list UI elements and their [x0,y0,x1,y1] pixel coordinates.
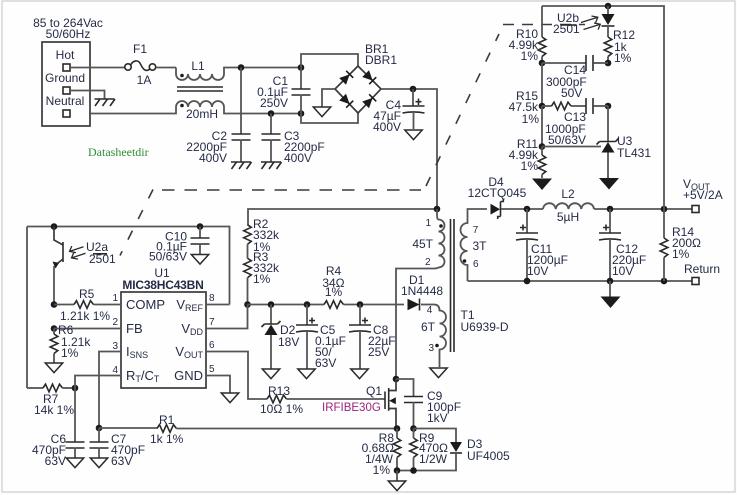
svg-text:GND: GND [174,368,203,383]
svg-text:1%: 1% [373,463,391,477]
svg-text:R5: R5 [79,287,95,301]
svg-text:1%: 1% [325,285,343,299]
svg-text:1kV: 1kV [427,411,448,425]
svg-text:10V: 10V [612,264,633,278]
svg-text:1%: 1% [61,346,79,360]
svg-text:2: 2 [112,317,118,328]
svg-text:50/63V: 50/63V [548,133,586,147]
svg-text:UF4005: UF4005 [467,449,510,463]
svg-text:8: 8 [209,293,215,304]
svg-text:Return: Return [684,262,720,276]
svg-text:R1: R1 [159,413,175,427]
svg-text:1%: 1% [522,112,540,126]
svg-text:1.21k 1%: 1.21k 1% [60,309,110,323]
svg-text:6T: 6T [421,320,436,334]
svg-text:3T: 3T [473,239,488,253]
svg-text:TL431: TL431 [617,146,651,160]
svg-text:1%: 1% [614,51,632,65]
svg-text:45T: 45T [412,237,433,251]
svg-text:25V: 25V [368,345,389,359]
svg-text:U6939-D: U6939-D [461,320,509,334]
svg-text:1N4448: 1N4448 [401,284,443,298]
svg-text:Ground: Ground [45,71,85,85]
svg-text:12CTQ045: 12CTQ045 [468,186,527,200]
svg-text:400V: 400V [199,151,227,165]
svg-text:+5V/2A: +5V/2A [683,188,723,202]
svg-text:10V: 10V [527,264,548,278]
svg-text:250V: 250V [260,96,288,110]
svg-text:1/2W: 1/2W [419,452,448,466]
svg-text:Hot: Hot [56,48,75,62]
svg-text:50V: 50V [561,86,582,100]
svg-text:2: 2 [425,257,431,268]
svg-text:1%: 1% [672,247,690,261]
svg-text:20mH: 20mH [186,107,218,121]
svg-text:1A: 1A [137,73,152,87]
svg-text:MIC38HC43BN: MIC38HC43BN [122,278,203,292]
svg-text:1%: 1% [253,272,271,286]
svg-text:400V: 400V [373,120,401,134]
svg-text:3: 3 [112,341,118,352]
svg-text:R13: R13 [268,384,290,398]
svg-text:63V: 63V [111,454,132,468]
svg-text:1: 1 [112,293,118,304]
svg-text:6: 6 [473,259,479,270]
svg-text:F1: F1 [133,42,147,56]
svg-text:1%: 1% [521,49,539,63]
svg-text:4: 4 [112,365,118,376]
svg-text:1: 1 [425,218,431,229]
svg-text:10Ω 1%: 10Ω 1% [260,402,303,416]
svg-text:COMP: COMP [126,297,165,312]
svg-text:14k 1%: 14k 1% [34,403,74,417]
svg-text:18V: 18V [278,335,299,349]
svg-text:DBR1: DBR1 [365,53,397,67]
svg-text:400V: 400V [284,151,312,165]
svg-text:L2: L2 [561,187,575,201]
svg-text:FB: FB [126,321,143,336]
svg-text:IRFIBE30G: IRFIBE30G [322,402,381,414]
svg-text:Datasheetdir: Datasheetdir [88,145,149,159]
svg-text:1k 1%: 1k 1% [150,432,184,446]
svg-text:63V: 63V [315,356,336,370]
svg-text:63V: 63V [45,454,66,468]
svg-text:1%: 1% [521,159,539,173]
svg-text:Q1: Q1 [366,384,382,398]
svg-text:5µH: 5µH [557,210,579,224]
svg-text:5: 5 [209,364,215,375]
svg-text:3: 3 [428,343,434,354]
svg-text:Neutral: Neutral [46,94,85,108]
svg-text:4: 4 [427,305,433,316]
svg-text:50/60Hz: 50/60Hz [46,27,91,41]
svg-text:6: 6 [209,340,215,351]
svg-text:7: 7 [473,225,479,236]
svg-text:50/63V: 50/63V [149,250,187,264]
svg-text:7: 7 [209,317,215,328]
svg-text:2501: 2501 [553,22,580,36]
svg-text:L1: L1 [191,59,205,73]
